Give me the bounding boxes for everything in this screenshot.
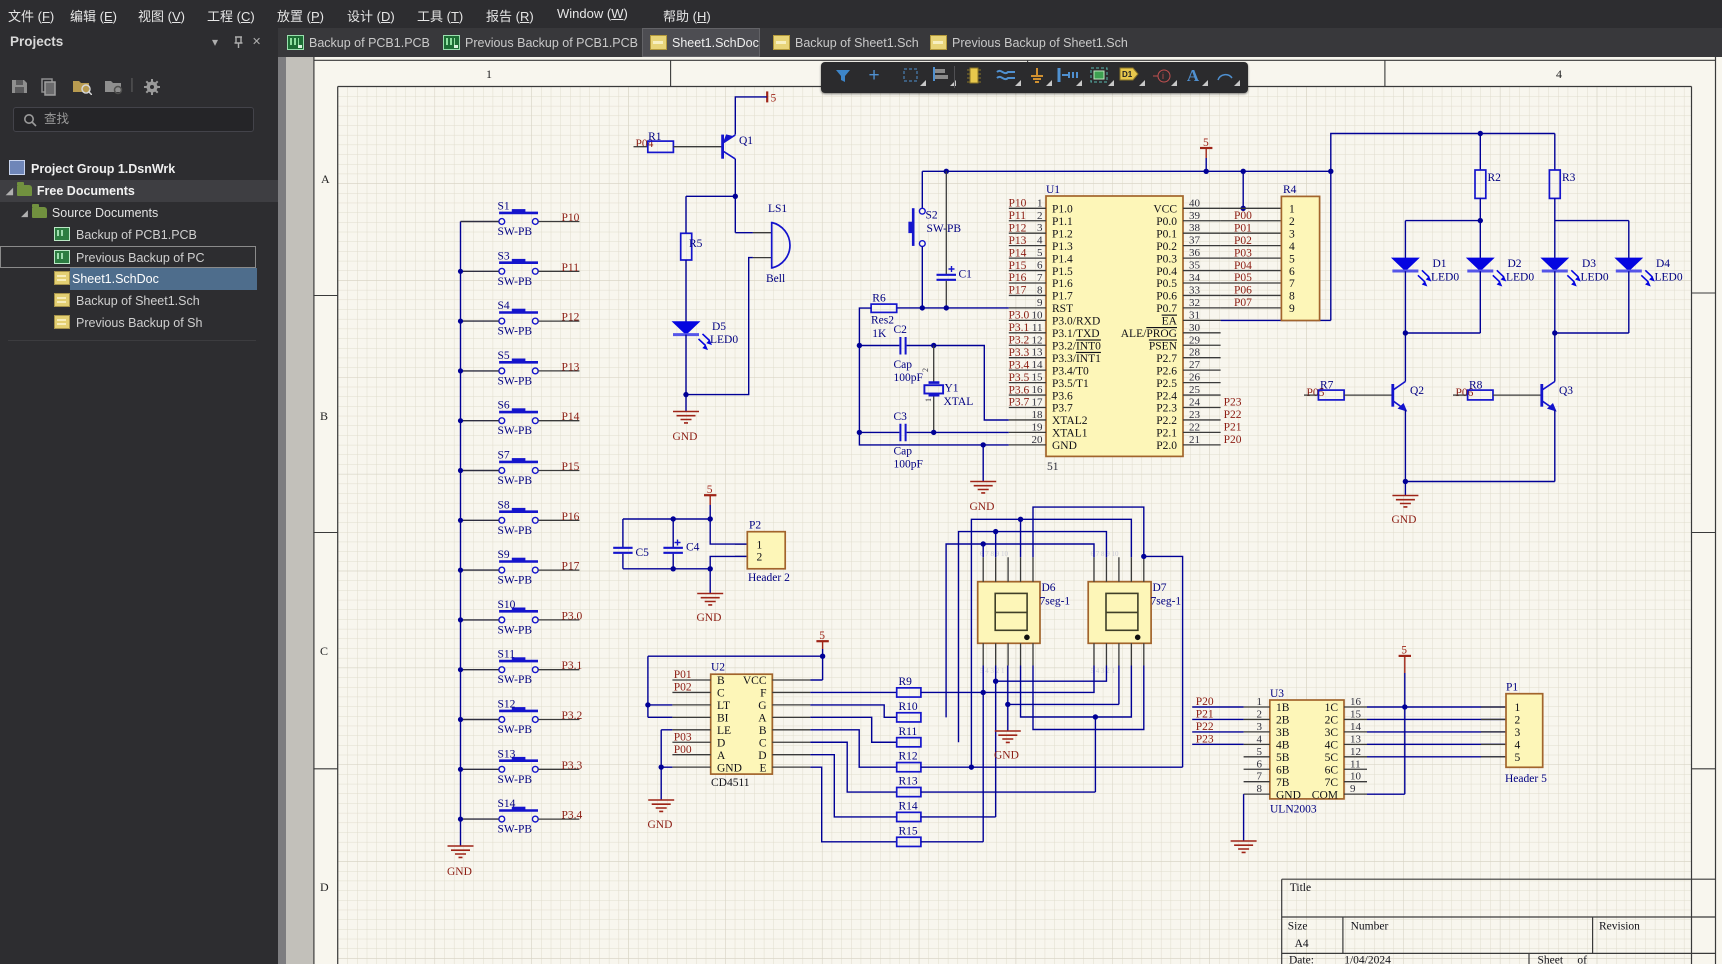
- junction D3 bottom: [1552, 330, 1557, 335]
- svg-text:P0.7: P0.7: [1156, 303, 1177, 315]
- wire R3 top: [1554, 134, 1556, 171]
- svg-text:XTAL1: XTAL1: [1052, 428, 1088, 440]
- svg-text:2: 2: [1257, 709, 1263, 721]
- U1 pin 21: [1156, 434, 1220, 452]
- svg-text:LED0: LED0: [1431, 272, 1459, 284]
- svg-text:1C: 1C: [1325, 702, 1339, 714]
- svg-text:18: 18: [1032, 409, 1044, 421]
- svg-text:LED0: LED0: [1655, 272, 1683, 284]
- switch S10: [498, 599, 539, 637]
- connector P1 Header 5: [1505, 682, 1547, 786]
- svg-text:4B: 4B: [1276, 740, 1290, 752]
- svg-text:P3.1/TXD: P3.1/TXD: [1052, 328, 1100, 340]
- U1 pin 33: [1156, 284, 1220, 302]
- resistor R10: [897, 701, 921, 722]
- svg-text:1/04/2024: 1/04/2024: [1344, 955, 1391, 964]
- junction D6.t1: [981, 541, 986, 546]
- svg-text:S10: S10: [498, 599, 516, 611]
- sheet outer border: [313, 57, 1715, 964]
- svg-text:P3.4/T0: P3.4/T0: [1052, 365, 1089, 377]
- junction D6.b1: [981, 690, 986, 695]
- wire Q3 collector: [1554, 371, 1556, 382]
- svg-text:P3.2: P3.2: [1009, 334, 1030, 346]
- zone separator ticks: [313, 60, 1715, 769]
- resistor R5: [681, 233, 703, 260]
- svg-text:i: i: [1162, 71, 1164, 81]
- svg-text:3: 3: [1257, 721, 1263, 733]
- LED D2: [1467, 258, 1534, 286]
- wire S14 to net label: [538, 818, 579, 820]
- ground at D5: [673, 395, 700, 443]
- junction GND row: [981, 442, 986, 447]
- wire U1 pin 32 to R4: [1221, 307, 1282, 309]
- wire net stub to R1: [634, 146, 648, 148]
- svg-text:10: 10: [1032, 309, 1044, 321]
- svg-text:EA: EA: [1162, 316, 1178, 328]
- wire D6.t2 drop: [995, 532, 997, 558]
- svg-text:F: F: [760, 688, 766, 700]
- svg-text:P0.3: P0.3: [1156, 253, 1177, 265]
- switch S9: [498, 549, 539, 587]
- U1 pin 4: [1009, 235, 1073, 253]
- wire R12 row: [921, 766, 1183, 768]
- svg-text:P3.1: P3.1: [1009, 322, 1030, 334]
- junction RST/S2: [920, 305, 925, 310]
- svg-text:P1.3: P1.3: [1052, 241, 1073, 253]
- svg-text:VCC: VCC: [1153, 204, 1177, 216]
- resistor R7: [1318, 380, 1344, 400]
- wire R8 to Q3 base: [1493, 394, 1542, 396]
- junction bus/S10: [458, 617, 463, 622]
- svg-text:12: 12: [1350, 746, 1361, 758]
- switch S11: [498, 649, 539, 687]
- svg-text:4C: 4C: [1325, 740, 1339, 752]
- svg-text:S9: S9: [498, 549, 510, 561]
- svg-text:SW-PB: SW-PB: [498, 276, 533, 288]
- svg-text:GND: GND: [447, 866, 472, 878]
- svg-text:36: 36: [1189, 247, 1201, 259]
- svg-text:PSEN: PSEN: [1149, 340, 1178, 352]
- svg-text:8: 8: [1037, 284, 1043, 296]
- svg-text:S5: S5: [498, 350, 510, 362]
- svg-text:P2.4: P2.4: [1156, 390, 1177, 402]
- svg-text:SW-PB: SW-PB: [498, 326, 533, 338]
- svg-text:SW-PB: SW-PB: [498, 226, 533, 238]
- svg-text:13: 13: [1350, 733, 1362, 745]
- svg-text:24: 24: [1189, 397, 1201, 409]
- svg-text:E: E: [759, 762, 766, 774]
- resistor R8: [1468, 380, 1493, 400]
- svg-text:GND: GND: [970, 501, 995, 513]
- svg-text:7: 7: [1289, 278, 1295, 290]
- wire bus to S3: [461, 270, 499, 272]
- svg-text:P00: P00: [674, 744, 692, 756]
- svg-text:LED0: LED0: [1581, 272, 1609, 284]
- svg-text:P3.3: P3.3: [1009, 347, 1030, 359]
- svg-text:ALE/PROG: ALE/PROG: [1121, 328, 1177, 340]
- resistor network R4: [1281, 184, 1319, 321]
- svg-text:U2: U2: [711, 662, 725, 674]
- junction bus/S6: [458, 418, 463, 423]
- wire U3 pin3 net: [1192, 731, 1243, 733]
- wire switch bus vertical: [460, 222, 462, 847]
- U1 pin 25: [1156, 384, 1220, 402]
- svg-text:SW-PB: SW-PB: [498, 425, 533, 437]
- switch S1: [498, 201, 539, 239]
- wire U1 pin 40 to R4: [1221, 207, 1282, 209]
- wire S7 to net label: [538, 470, 579, 472]
- U1 pin 16: [1009, 384, 1073, 402]
- U1 pin 29: [1149, 334, 1221, 352]
- svg-text:P10: P10: [1009, 198, 1027, 210]
- svg-text:SW-PB: SW-PB: [498, 475, 533, 487]
- svg-text:XTAL: XTAL: [944, 396, 974, 408]
- junction GND/P2: [708, 566, 713, 571]
- svg-text:SW-PB: SW-PB: [498, 375, 533, 387]
- junction bus/S4: [458, 319, 463, 324]
- svg-text:C4: C4: [686, 542, 700, 554]
- capacitor C2: [859, 324, 933, 384]
- U1 pin 38: [1156, 222, 1220, 240]
- svg-text:U3: U3: [1270, 688, 1284, 700]
- wire seg net D6.b5/D7.b5: [1033, 666, 1144, 730]
- svg-text:34: 34: [1189, 272, 1201, 284]
- svg-text:C1: C1: [959, 269, 973, 281]
- wire LE to GND row: [661, 730, 672, 767]
- crystal Y1: [921, 346, 973, 433]
- resistor R9: [897, 676, 921, 697]
- wire rail to VCC pin: [1242, 171, 1244, 208]
- svg-text:G: G: [758, 700, 766, 712]
- junction C2 left: [857, 343, 862, 348]
- power +5 at C4/P2: [704, 484, 716, 519]
- svg-text:25: 25: [1189, 384, 1201, 396]
- svg-text:P00: P00: [1234, 210, 1252, 222]
- junction U2 GND row: [659, 764, 664, 769]
- svg-text:P12: P12: [562, 312, 580, 324]
- ground at switch bus bottom: [447, 846, 474, 878]
- svg-text:22: 22: [1189, 421, 1200, 433]
- wire P2 pin 1: [710, 519, 747, 544]
- wire R2 bottom to D1/D2: [1405, 198, 1480, 258]
- svg-text:S12: S12: [498, 699, 516, 711]
- svg-text:5: 5: [707, 484, 713, 496]
- svg-text:Title: Title: [1290, 882, 1311, 894]
- svg-text:C3: C3: [894, 411, 908, 423]
- U1 pin 10: [1009, 309, 1100, 327]
- wire U2 F to R9: [810, 691, 896, 693]
- junction bus/S7: [458, 468, 463, 473]
- svg-text:8: 8: [1289, 291, 1295, 303]
- svg-text:P21: P21: [1196, 709, 1214, 721]
- svg-text:7B: 7B: [1276, 777, 1290, 789]
- wire bell return: [686, 258, 753, 395]
- svg-text:33: 33: [1189, 284, 1201, 296]
- svg-text:P0.2: P0.2: [1156, 241, 1177, 253]
- svg-text:D5: D5: [712, 321, 726, 333]
- connector P2 Header 2: [747, 520, 790, 585]
- junction VCC row: [1241, 206, 1246, 211]
- svg-text:D1: D1: [1433, 258, 1447, 270]
- svg-text:RST: RST: [1052, 303, 1073, 315]
- svg-text:SW-PB: SW-PB: [498, 724, 533, 736]
- svg-text:LT: LT: [717, 700, 730, 712]
- U1 pin 30: [1121, 322, 1221, 340]
- wire U1 pin 38 to R4: [1221, 232, 1282, 234]
- svg-text:31: 31: [1189, 309, 1200, 321]
- svg-text:3: 3: [1037, 222, 1043, 234]
- U1 pin 35: [1156, 260, 1220, 278]
- svg-text:3: 3: [1289, 228, 1295, 240]
- svg-text:26: 26: [1189, 372, 1201, 384]
- svg-text:P03: P03: [674, 731, 692, 743]
- svg-text:P07: P07: [1234, 297, 1252, 309]
- svg-text:35: 35: [1189, 260, 1201, 272]
- wire rail to LT/BI: [648, 656, 673, 717]
- junction C3 left: [857, 430, 862, 435]
- svg-text:VCC: VCC: [743, 675, 767, 687]
- svg-text:P3.5/T1: P3.5/T1: [1052, 378, 1089, 390]
- svg-text:P1.7: P1.7: [1052, 291, 1073, 303]
- svg-text:A: A: [321, 172, 330, 186]
- junction bus/S14: [458, 817, 463, 822]
- svg-text:30: 30: [1189, 322, 1201, 334]
- U1 pin 9: [1009, 297, 1073, 315]
- svg-text:S14: S14: [498, 798, 516, 810]
- svg-text:4: 4: [1257, 733, 1263, 745]
- svg-text:P3.0: P3.0: [562, 610, 583, 622]
- svg-text:P3.6: P3.6: [1052, 390, 1073, 402]
- svg-text:P03: P03: [1234, 247, 1252, 259]
- U1 pin 32: [1156, 297, 1220, 315]
- svg-text:C5: C5: [636, 547, 650, 559]
- wire stub to R7: [1304, 394, 1318, 396]
- svg-text:4: 4: [1556, 67, 1562, 81]
- svg-text:Header 5: Header 5: [1505, 773, 1547, 785]
- svg-text:P0.1: P0.1: [1156, 228, 1177, 240]
- ground at P2: [697, 569, 724, 624]
- U1 pin 37: [1156, 235, 1220, 253]
- power +5 rail above U1: [1200, 137, 1212, 171]
- wire U2 G to R10: [810, 705, 896, 717]
- IC U2 CD4511: [672, 662, 810, 790]
- svg-text:P3.0: P3.0: [1009, 310, 1030, 322]
- svg-text:P22: P22: [1196, 721, 1214, 733]
- svg-text:P3.6: P3.6: [1009, 384, 1030, 396]
- svg-text:P2.6: P2.6: [1156, 365, 1177, 377]
- svg-text:5C: 5C: [1325, 752, 1339, 764]
- wire P2 pin stubs: [735, 544, 747, 556]
- LED D4: [1616, 258, 1683, 286]
- U1 pin 6: [1009, 260, 1073, 278]
- wire S9 to net label: [538, 569, 579, 571]
- wire R5 to D5: [685, 260, 687, 322]
- wire D5 to ground: [685, 335, 687, 395]
- svg-text:7: 7: [1257, 771, 1263, 783]
- svg-text:P16: P16: [1009, 272, 1027, 284]
- wire Q1 emitter to +5: [735, 97, 767, 135]
- svg-text:P12: P12: [1009, 222, 1027, 234]
- svg-text:D: D: [758, 750, 766, 762]
- junction t5/branch: [1141, 554, 1146, 559]
- svg-text:7: 7: [1037, 272, 1043, 284]
- junction D6.t2: [993, 529, 998, 534]
- svg-text:P11: P11: [1009, 210, 1027, 222]
- wire bus to S11: [461, 669, 499, 671]
- junction C4 top: [671, 516, 676, 521]
- junction D5/bell: [683, 392, 688, 397]
- svg-text:LS1: LS1: [768, 203, 787, 215]
- U1 pin 34: [1156, 272, 1220, 290]
- svg-text:12: 12: [1032, 334, 1043, 346]
- svg-text:Sheet of: Sheet of: [1538, 955, 1588, 964]
- junction D1 bottom: [1403, 330, 1408, 335]
- wire bus to S8: [461, 519, 499, 521]
- svg-text:Size: Size: [1288, 921, 1308, 933]
- svg-text:SW-PB: SW-PB: [498, 774, 533, 786]
- svg-text:XTAL2: XTAL2: [1052, 415, 1088, 427]
- svg-text:P06: P06: [1234, 285, 1252, 297]
- svg-text:5: 5: [1037, 247, 1043, 259]
- svg-text:P17: P17: [1009, 285, 1027, 297]
- wire U1 pin 36 to R4: [1221, 257, 1282, 259]
- capacitor C4: [663, 540, 699, 554]
- transistor Q3: [1542, 382, 1574, 411]
- wire U3 5C to P1 pin5: [1367, 756, 1506, 758]
- switch S14: [498, 798, 539, 836]
- IC U3 ULN2003: [1244, 688, 1367, 816]
- switch S7: [498, 450, 539, 488]
- ground at displays: [994, 704, 1021, 761]
- wire P1 pin stubs: [1481, 707, 1506, 757]
- svg-text:7seg-1: 7seg-1: [1151, 596, 1182, 608]
- svg-text:R4: R4: [1283, 184, 1297, 196]
- svg-text:P13: P13: [562, 361, 580, 373]
- svg-text:7C: 7C: [1325, 777, 1339, 789]
- svg-text:5: 5: [1289, 253, 1295, 265]
- svg-text:8: 8: [1257, 783, 1263, 795]
- U1 pin 14: [1009, 359, 1089, 377]
- svg-text:16: 16: [1032, 384, 1044, 396]
- wire D6.t4 drop: [1020, 519, 1022, 557]
- svg-text:P2.3: P2.3: [1156, 403, 1177, 415]
- svg-text:S11: S11: [498, 649, 516, 661]
- svg-text:P22: P22: [1224, 409, 1242, 421]
- svg-text:P2.7: P2.7: [1156, 353, 1177, 365]
- wire seg net R10 top: [959, 532, 1107, 743]
- U1 pin 24: [1156, 397, 1220, 415]
- svg-text:1K: 1K: [872, 328, 887, 340]
- wire D6.b1 riser to R15: [921, 666, 983, 842]
- wire S8 to net label: [538, 519, 579, 521]
- svg-text:1: 1: [486, 67, 492, 81]
- U1 pin 13: [1009, 347, 1101, 365]
- wire S11 to net label: [538, 669, 579, 671]
- svg-text:23: 23: [1189, 409, 1201, 421]
- svg-text:2: 2: [1037, 210, 1043, 222]
- wire D3/D4 cathodes to Q3: [1555, 271, 1629, 371]
- wire U2 C to R13: [810, 742, 896, 792]
- svg-text:P3.4: P3.4: [1009, 359, 1030, 371]
- junction bus/S12: [458, 717, 463, 722]
- svg-text:P02: P02: [1234, 235, 1252, 247]
- svg-text:6: 6: [1037, 260, 1043, 272]
- svg-text:A: A: [717, 750, 726, 762]
- svg-text:P3.7: P3.7: [1052, 403, 1073, 415]
- svg-text:C: C: [320, 644, 328, 658]
- svg-text:38: 38: [1189, 222, 1201, 234]
- svg-text:5: 5: [1515, 752, 1521, 764]
- wire bus to S4: [461, 320, 499, 322]
- wire D6.b2 riser to R14: [921, 666, 996, 817]
- display D7 7seg-1: [1088, 550, 1181, 675]
- resistor R11: [897, 726, 921, 747]
- svg-text:3C: 3C: [1325, 727, 1339, 739]
- junction C3/crystal: [931, 430, 936, 435]
- svg-text:LED0: LED0: [710, 334, 738, 346]
- svg-text:5: 5: [819, 630, 825, 642]
- svg-text:P0.5: P0.5: [1156, 278, 1177, 290]
- wire S12 to net label: [538, 719, 579, 721]
- svg-text:Revision: Revision: [1599, 921, 1640, 933]
- svg-text:Date:: Date:: [1289, 955, 1314, 964]
- svg-text:2B: 2B: [1276, 715, 1290, 727]
- svg-text:LE: LE: [717, 725, 731, 737]
- svg-text:R14: R14: [899, 800, 918, 812]
- svg-text:P3.5: P3.5: [1009, 372, 1030, 384]
- svg-text:3B: 3B: [1276, 727, 1290, 739]
- svg-text:6: 6: [1257, 758, 1263, 770]
- U1 pin 28: [1156, 347, 1220, 365]
- svg-text:9: 9: [1350, 783, 1356, 795]
- junction bus/S5: [458, 368, 463, 373]
- wire stub to R8: [1453, 394, 1468, 396]
- svg-text:14: 14: [1350, 721, 1362, 733]
- svg-text:R8: R8: [1469, 380, 1483, 392]
- svg-text:37: 37: [1189, 235, 1201, 247]
- svg-text:GND: GND: [648, 819, 673, 831]
- svg-text:P1.4: P1.4: [1052, 253, 1073, 265]
- svg-text:P04: P04: [1234, 260, 1252, 272]
- junction bus/S11: [458, 667, 463, 672]
- svg-text:S2: S2: [926, 210, 938, 222]
- svg-text:P01: P01: [674, 669, 692, 681]
- svg-text:GND: GND: [1052, 440, 1077, 452]
- wire U2 E to R15: [810, 767, 896, 842]
- junction rail/power: [1204, 169, 1209, 174]
- junction D6.t4: [1018, 517, 1023, 522]
- schematic sheet: [313, 57, 1722, 964]
- svg-text:Y1: Y1: [945, 383, 959, 395]
- switch S12: [498, 699, 539, 737]
- wire U3 pin2 net: [1192, 718, 1243, 720]
- U1 pin 39: [1156, 210, 1220, 228]
- svg-text:R11: R11: [899, 726, 918, 738]
- switch S3: [498, 250, 539, 288]
- svg-text:1: 1: [1515, 702, 1521, 714]
- wire S5 to net label: [538, 370, 579, 372]
- U1 pin 7: [1009, 272, 1073, 290]
- wire R7 to Q2 base: [1344, 394, 1393, 396]
- U1 pin 26: [1156, 372, 1220, 390]
- svg-text:16: 16: [1350, 696, 1362, 708]
- svg-text:P15: P15: [562, 461, 580, 473]
- svg-text:P3.3: P3.3: [562, 760, 583, 772]
- svg-text:2: 2: [921, 368, 930, 372]
- U1 pin 19: [1009, 421, 1088, 439]
- junction b4 row/R13 riser: [1093, 714, 1098, 719]
- LED D5: [673, 321, 739, 349]
